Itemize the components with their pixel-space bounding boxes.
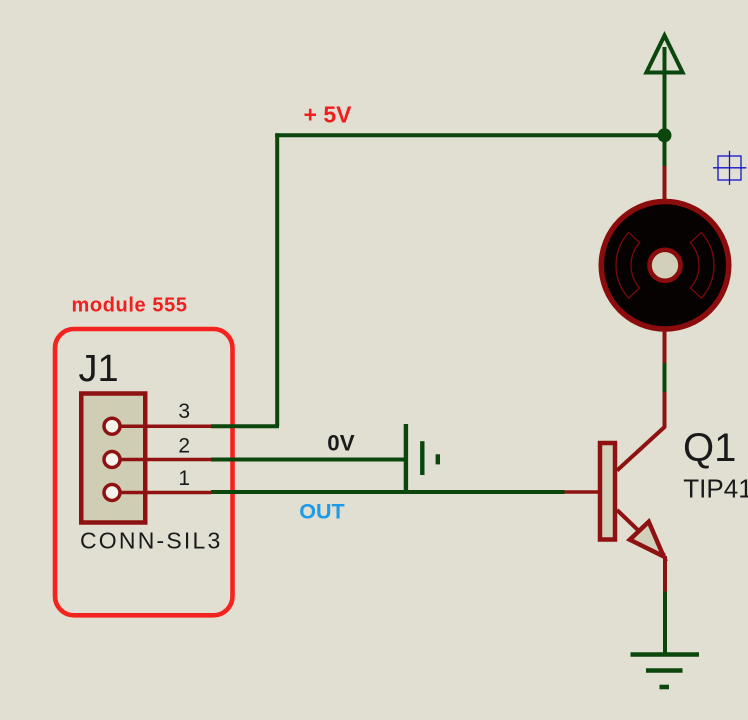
wire 0V net (green) pin2 — [211, 458, 406, 462]
wire left vertical — [275, 133, 279, 426]
ground symbol — [631, 655, 700, 688]
pin 1 stub maroon — [122, 491, 212, 495]
svg-text:TIP41: TIP41 — [683, 473, 748, 503]
svg-text:OUT: OUT — [299, 500, 344, 524]
transistor Q1 emitter line — [617, 510, 664, 556]
pin 2 stub maroon — [122, 458, 212, 462]
motor M — [601, 202, 729, 330]
connector pin circle 3 — [104, 418, 120, 434]
wire collector pin maroon — [617, 392, 665, 471]
wire OUT net (green) pin1 to base — [211, 490, 565, 494]
wire emitter to ground green — [663, 592, 667, 654]
transistor Q1 base pin — [565, 490, 600, 494]
wire motor top pin (maroon stub) — [663, 135, 667, 166]
svg-text:J1: J1 — [79, 348, 119, 390]
svg-text:Q1: Q1 — [683, 426, 736, 470]
transistor Q1 body bar — [600, 443, 615, 540]
blue origin marker — [713, 151, 746, 185]
svg-text:2: 2 — [178, 435, 190, 458]
svg-text:0V: 0V — [327, 430, 354, 455]
wire collector net green segment — [663, 363, 667, 392]
svg-text:module 555: module 555 — [72, 295, 188, 317]
transistor Q1 emitter arrow — [630, 522, 664, 557]
wire motor bottom pin (maroon stub) — [663, 330, 667, 363]
svg-text:3: 3 — [178, 400, 190, 423]
svg-text:+ 5V: + 5V — [304, 102, 353, 128]
wire emitter pin maroon — [663, 556, 667, 592]
svg-text:1: 1 — [178, 467, 190, 490]
connector pin circle 2 — [104, 452, 120, 468]
0V ground terminal rotated — [406, 424, 438, 492]
connector pin circle 1 — [104, 485, 120, 501]
wire top horizontal — [275, 133, 664, 137]
connector J1 body — [81, 394, 145, 523]
pin 3 stub maroon — [122, 424, 212, 428]
wire pin3 to vertical (green) — [211, 424, 279, 428]
power terminal +5V arrow — [646, 36, 682, 137]
module 555 red box — [55, 329, 233, 615]
svg-text:CONN-SIL3: CONN-SIL3 — [80, 528, 223, 554]
junction dot — [658, 128, 672, 142]
